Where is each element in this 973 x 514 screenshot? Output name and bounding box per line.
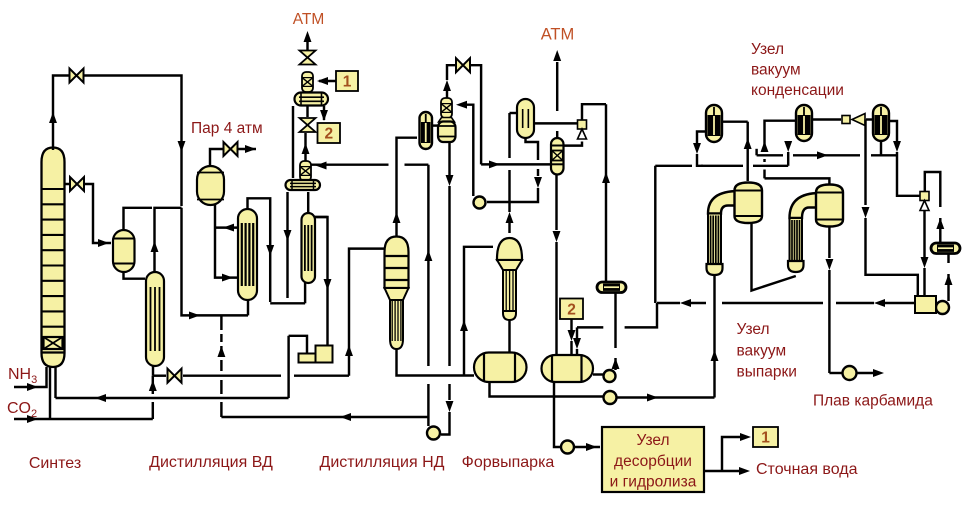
LP condenser side outlet	[315, 216, 328, 218]
recycle line low	[221, 413, 428, 421]
label uzel vakuum vyparki	[737, 321, 797, 381]
forevaporator vapor riser	[506, 113, 516, 233]
ND overhead riser	[393, 138, 417, 236]
tag1 line to ejector1	[317, 77, 336, 85]
tag box 1 left	[336, 71, 358, 91]
C3 bottom stub	[880, 141, 882, 155]
valve V5 on ejector bypass	[456, 58, 470, 72]
collect header to LP condenser	[270, 283, 305, 303]
tag2 line into drum2	[568, 319, 576, 355]
ejector2 feed line	[312, 162, 429, 170]
ejector3 stack	[439, 98, 455, 122]
carbamate condenser HX	[238, 209, 257, 300]
pressure relief 1	[578, 120, 587, 139]
condensate pump P1	[474, 197, 486, 209]
condensate line into pump box	[315, 217, 331, 345]
svg-text:АТМ: АТМ	[293, 11, 325, 28]
steam drum	[197, 166, 224, 205]
LP condenser riser	[307, 192, 309, 213]
svg-text:десорбции: десорбции	[614, 453, 692, 470]
svg-text:Узел: Узел	[751, 41, 784, 58]
svg-text:и гидролиза: и гидролиза	[610, 474, 697, 491]
evap1 riser	[722, 122, 752, 181]
condensate header left	[655, 166, 692, 303]
C3 outlet path	[889, 121, 920, 196]
svg-text:1: 1	[761, 430, 770, 447]
label Sintez	[29, 455, 81, 472]
seal box	[915, 296, 936, 313]
HP stripper HX	[146, 272, 164, 366]
svg-text:Синтез: Синтез	[29, 455, 81, 472]
vacuum evaporator 1	[707, 183, 763, 276]
seal condenser pill	[931, 243, 960, 254]
seal pump	[936, 301, 949, 314]
C2 drain	[784, 141, 792, 166]
HP separator vessel	[113, 230, 135, 272]
label Plav karbamida	[813, 393, 933, 410]
ATM vent line 1	[304, 31, 312, 51]
stripper bottom pipe	[152, 365, 154, 376]
tag box 2 mid	[560, 299, 583, 320]
melt pump	[843, 366, 857, 380]
ejector3 discharge loop	[443, 65, 481, 164]
tag box 2 left	[318, 123, 341, 143]
ND condenser capsule	[420, 112, 439, 149]
flash drum 1 outlet	[490, 382, 604, 397]
valve V3 steam line	[224, 142, 238, 156]
pill1 left drain to pill2	[292, 106, 294, 178]
label Distillyaciya VD	[149, 454, 273, 471]
LP distillation column	[385, 237, 409, 350]
relief bottom line to atm separator	[564, 142, 582, 146]
svg-text:Дистилляция ВД: Дистилляция ВД	[149, 454, 273, 471]
valve V1 on reactor overhead	[70, 69, 84, 83]
side line reactor to separator	[65, 184, 112, 247]
check valve	[842, 114, 865, 126]
forevap pump P2	[604, 391, 617, 404]
check valve line	[812, 118, 873, 120]
label CO2	[7, 400, 37, 420]
vacuum condenser C3	[873, 105, 889, 141]
pill condenser 2	[286, 180, 321, 190]
svg-text:Узел: Узел	[636, 432, 669, 449]
pill1 drain to tag2	[320, 106, 328, 121]
condenser to pressure valve line	[534, 122, 577, 124]
vacuum evaporator 2	[788, 185, 843, 273]
forevaporator condenser HX	[517, 99, 534, 138]
svg-text:1: 1	[343, 74, 352, 91]
desorption unit box	[602, 427, 704, 492]
svg-text:Узел: Узел	[737, 321, 770, 338]
evap2 vapor line	[765, 178, 830, 184]
carbamate pump step box	[299, 346, 333, 363]
svg-text:АТМ: АТМ	[541, 26, 575, 44]
svg-text:2: 2	[324, 126, 333, 143]
separator top line to header	[124, 208, 153, 230]
boiler riser line	[215, 224, 238, 232]
ND bottoms line	[397, 349, 475, 376]
steam outlet line	[210, 145, 256, 166]
seal pill to pump	[945, 253, 953, 301]
condenser drain to pump	[487, 138, 542, 202]
evap2 melt line	[825, 227, 842, 374]
svg-text:вакуум: вакуум	[751, 62, 801, 79]
ejector3 drum	[438, 122, 456, 143]
vac pump P3	[604, 370, 616, 382]
pump P2 discharge to evaporator	[617, 299, 719, 401]
label NH3	[8, 366, 37, 386]
desorption feed pump	[561, 441, 574, 454]
forevaporator bottom line	[508, 320, 510, 366]
ejector1 stack	[302, 72, 313, 92]
C2 feed line	[761, 121, 796, 179]
drum2 to vac pump stub	[593, 373, 605, 375]
purge line to seal box	[862, 120, 918, 297]
valve VV2	[300, 118, 316, 132]
svg-text:Сточная вода: Сточная вода	[756, 461, 858, 478]
condenser top outlet	[248, 198, 275, 302]
NH3 feed line	[14, 367, 47, 391]
stripped liquid line with valve	[153, 249, 384, 376]
suction manifold	[757, 149, 897, 159]
bypass to atm separator	[481, 160, 551, 168]
svg-text:2: 2	[567, 302, 576, 319]
overhead line to HP scrubber	[49, 76, 185, 207]
recycle riser to condenser	[217, 315, 225, 417]
label Forvyparka	[462, 454, 555, 471]
C1 drain	[693, 132, 706, 166]
dark pill exchanger	[597, 282, 626, 293]
label uzel vakuum kondensacii	[751, 41, 844, 99]
evap1 to evap2 transfer	[752, 223, 796, 291]
ejector2 feed riser	[424, 165, 432, 426]
ND bottoms pump	[427, 427, 440, 440]
svg-text:Плав карбамида: Плав карбамида	[813, 393, 933, 410]
svg-text:Дистилляция НД: Дистилляция НД	[320, 454, 445, 471]
vacuum condenser C2	[796, 105, 812, 141]
forevaporator column	[497, 238, 522, 320]
riser ejector2 to valve VV2	[302, 133, 310, 161]
label Par 4 atm	[191, 120, 263, 137]
atm separator vessel	[551, 138, 564, 175]
tag box 1 right	[753, 427, 778, 447]
ND reflux drum drain	[441, 142, 453, 435]
line pill1 to valve VV2	[306, 106, 308, 117]
svg-text:Пар 4 атм: Пар 4 атм	[191, 120, 263, 137]
LP condenser HX	[302, 213, 316, 283]
pill2 drain line	[284, 192, 292, 298]
svg-text:Форвыпарка: Форвыпарка	[462, 454, 555, 471]
header downcomer to condenser	[182, 208, 249, 320]
header from stripper top	[151, 208, 182, 272]
label ATM 2	[541, 26, 575, 44]
melt product line	[857, 369, 884, 377]
flash drum 1	[474, 353, 527, 383]
svg-text:конденсации: конденсации	[751, 82, 844, 99]
drum2 bottoms to desorption	[554, 382, 600, 451]
ejector3 suction line	[456, 101, 473, 196]
svg-text:вакуум: вакуум	[737, 343, 787, 360]
evap1 bundle feed stub	[713, 275, 715, 299]
carbamate return line	[56, 366, 289, 402]
branch to tag1	[722, 433, 751, 471]
pill to vac pump	[612, 292, 620, 370]
pump box outlet pipe	[289, 336, 307, 353]
valve V4 stripper outlet	[168, 369, 182, 383]
atm separator vent	[553, 50, 561, 138]
pressure relief 2	[920, 192, 929, 297]
ejector2 stack	[300, 161, 311, 181]
vacuum condenser C1	[706, 105, 722, 142]
valve VV1 atm vent	[300, 51, 316, 65]
condensate header right	[701, 165, 788, 167]
separator bottom line to stripper	[124, 272, 146, 279]
label Distillyaciya ND	[320, 454, 445, 471]
label Stochnaya voda	[756, 461, 858, 478]
return line vertical from pump box	[287, 336, 289, 398]
seal loop upper	[925, 172, 944, 243]
synthesis reactor column	[42, 148, 65, 368]
treated water line	[704, 467, 750, 475]
atm separator drain	[553, 175, 561, 356]
relief top loop	[582, 104, 606, 120]
flash drum 2	[542, 355, 594, 382]
reactor bottom outlet pipe	[49, 366, 51, 419]
ND bottoms riser to forevaporator	[460, 247, 493, 376]
carbamate condenser inlet riser	[247, 298, 249, 315]
boiler downcomer line	[215, 205, 238, 282]
vac exchanger riser	[602, 104, 610, 282]
svg-text:выпарки: выпарки	[737, 364, 797, 381]
vacuum header	[657, 299, 915, 307]
vac condensate return	[573, 303, 657, 355]
pill condenser 1	[295, 93, 329, 106]
valve V2 on reactor side line	[70, 177, 84, 191]
CO2 feed line	[14, 376, 157, 423]
label ATM 1	[293, 11, 325, 28]
